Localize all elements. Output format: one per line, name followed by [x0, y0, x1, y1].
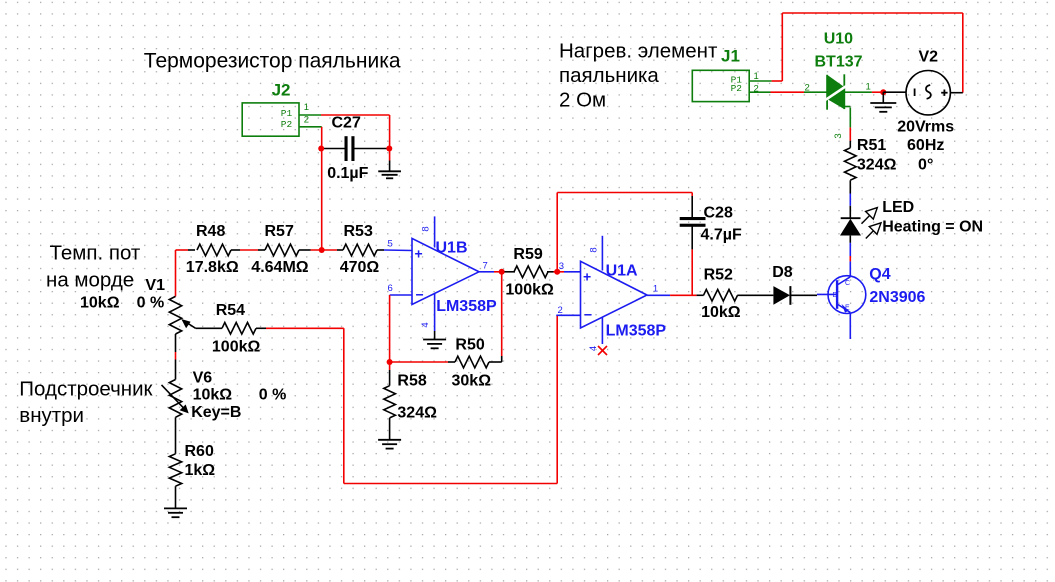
svg-text:R57: R57 [265, 223, 294, 240]
svg-text:C28: C28 [704, 205, 733, 222]
svg-text:324Ω: 324Ω [857, 156, 897, 173]
svg-text:−: − [416, 287, 424, 303]
svg-text:R60: R60 [185, 443, 214, 460]
svg-text:2 Ом: 2 Ом [559, 89, 606, 112]
svg-text:470Ω: 470Ω [340, 259, 380, 276]
svg-text:8: 8 [589, 247, 600, 252]
svg-text:7: 7 [483, 261, 488, 272]
svg-text:324Ω: 324Ω [397, 405, 437, 422]
svg-text:0°: 0° [918, 156, 933, 173]
svg-text:R58: R58 [397, 372, 426, 389]
svg-text:V2: V2 [919, 48, 939, 65]
svg-text:10kΩ: 10kΩ [80, 294, 120, 311]
svg-text:Heating = ON: Heating = ON [882, 219, 983, 236]
svg-text:R48: R48 [196, 223, 225, 240]
svg-text:−: − [584, 307, 592, 323]
svg-text:5: 5 [388, 239, 393, 250]
svg-text:+: + [415, 246, 423, 262]
svg-text:100kΩ: 100kΩ [505, 281, 554, 298]
svg-text:60Hz: 60Hz [907, 137, 944, 154]
svg-text:0 %: 0 % [259, 386, 287, 403]
svg-text:3: 3 [833, 133, 844, 138]
svg-text:R59: R59 [513, 246, 542, 263]
svg-text:V1: V1 [145, 277, 165, 294]
svg-text:Нагрев. элемент: Нагрев. элемент [559, 39, 718, 62]
svg-text:0.1µF: 0.1µF [327, 165, 368, 182]
svg-text:U10: U10 [824, 31, 853, 48]
svg-text:4: 4 [588, 346, 599, 351]
svg-text:V6: V6 [193, 370, 213, 387]
svg-text:J2: J2 [272, 80, 291, 99]
svg-text:100kΩ: 100kΩ [212, 338, 261, 355]
svg-text:1: 1 [653, 283, 658, 294]
svg-text:D8: D8 [772, 264, 793, 281]
svg-text:паяльника: паяльника [559, 64, 659, 87]
svg-text:4.64MΩ: 4.64MΩ [251, 259, 308, 276]
svg-text:R54: R54 [216, 302, 245, 319]
svg-text:6: 6 [388, 283, 393, 294]
svg-text:8: 8 [421, 226, 432, 231]
svg-text:1: 1 [866, 82, 871, 93]
svg-text:LED: LED [882, 199, 914, 216]
svg-text:4: 4 [420, 322, 431, 327]
svg-text:Q4: Q4 [869, 266, 890, 283]
svg-text:LM358P: LM358P [606, 323, 667, 340]
svg-text:1: 1 [304, 102, 309, 113]
svg-text:Темп. пот: Темп. пот [50, 242, 141, 265]
svg-text:B: B [833, 292, 838, 299]
svg-text:P2: P2 [731, 83, 743, 94]
svg-text:на морде: на морде [46, 269, 134, 292]
svg-text:R50: R50 [455, 336, 484, 353]
svg-text:2N3906: 2N3906 [869, 289, 925, 306]
svg-text:R51: R51 [857, 137, 886, 154]
svg-text:P1: P1 [281, 108, 293, 119]
svg-text:U1A: U1A [606, 262, 638, 279]
svg-text:Key=B: Key=B [191, 404, 241, 421]
svg-text:30kΩ: 30kΩ [452, 372, 492, 389]
svg-text:10kΩ: 10kΩ [701, 304, 741, 321]
svg-text:3: 3 [559, 261, 564, 272]
svg-text:J1: J1 [721, 46, 740, 65]
svg-text:Терморезистор паяльника: Терморезистор паяльника [144, 49, 401, 72]
svg-text:R53: R53 [344, 223, 373, 240]
svg-text:E: E [845, 305, 850, 312]
svg-text:C27: C27 [332, 115, 361, 132]
svg-text:BT137: BT137 [815, 54, 863, 71]
svg-text:R52: R52 [704, 267, 733, 284]
svg-text:U1B: U1B [436, 240, 468, 257]
svg-text:2: 2 [558, 305, 563, 316]
svg-text:4.7µF: 4.7µF [701, 227, 742, 244]
svg-text:2: 2 [805, 83, 810, 94]
svg-text:17.8kΩ: 17.8kΩ [186, 259, 239, 276]
svg-text:LM358P: LM358P [436, 298, 497, 315]
svg-text:0 %: 0 % [137, 294, 165, 311]
svg-text:2: 2 [304, 115, 309, 126]
svg-text:+: + [583, 269, 591, 285]
svg-text:P2: P2 [281, 119, 293, 130]
svg-text:20Vrms: 20Vrms [897, 119, 954, 136]
svg-text:10kΩ: 10kΩ [193, 386, 233, 403]
svg-text:C: C [845, 280, 850, 287]
svg-text:1kΩ: 1kΩ [185, 462, 216, 479]
svg-text:внутри: внутри [19, 404, 84, 427]
svg-text:Подстроечник: Подстроечник [19, 378, 153, 401]
